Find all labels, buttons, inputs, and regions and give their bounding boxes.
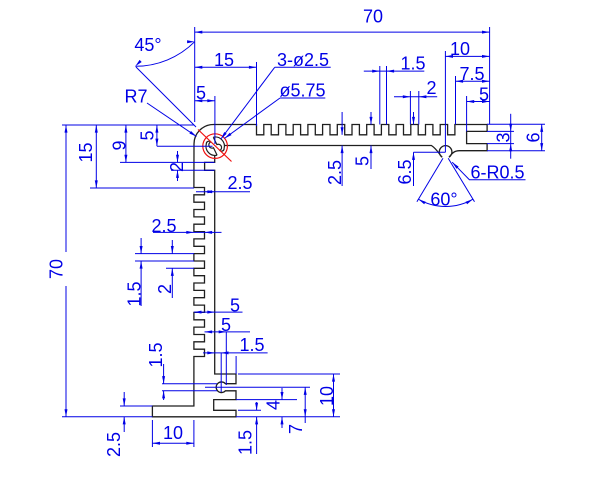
red ø5.75 circle marker (203, 134, 228, 159)
dimension 2.5 under arm (341, 112, 343, 135)
extension lines bottom right (236, 399, 297, 401)
svg-text:3: 3 (494, 132, 514, 142)
dimension 60 degrees (417, 158, 443, 202)
svg-text:15: 15 (214, 50, 234, 70)
svg-text:6.5: 6.5 (395, 159, 415, 184)
svg-text:10: 10 (450, 39, 470, 59)
dimension 2 left notch (177, 151, 179, 162)
dimension 10 top-right (445, 55, 489, 57)
leader R7 (147, 103, 197, 137)
svg-text:60°: 60° (430, 190, 457, 210)
dimension 70 left (65, 125, 67, 252)
dimension 2 left teeth (171, 240, 173, 254)
dimension 10 foot (152, 442, 194, 444)
svg-text:1.5: 1.5 (239, 335, 264, 355)
svg-text:70: 70 (363, 7, 383, 27)
svg-text:2: 2 (167, 162, 187, 172)
leader 6-R0.5 (452, 162, 525, 180)
dimension 2.5 wall (196, 191, 250, 193)
dimension 2.5 foot (123, 392, 125, 406)
extension lines top (194, 27, 196, 122)
svg-text:1.5: 1.5 (125, 281, 145, 306)
dimension 2.5 tooth depth (153, 231, 222, 233)
svg-text:1.5: 1.5 (400, 54, 425, 74)
leader ø5.75 (280, 97, 325, 99)
svg-text:3-ø2.5: 3-ø2.5 (277, 50, 329, 70)
svg-text:10: 10 (163, 423, 183, 443)
dimension 5 wall span (194, 311, 243, 313)
corner screw port hole (3-ø2.5) (206, 137, 224, 155)
svg-text:1.5: 1.5 (146, 342, 166, 367)
dimension 1.5 mid (163, 364, 165, 384)
red 45-degree slot axis line (198, 130, 232, 162)
svg-text:10: 10 (317, 386, 337, 406)
dimension 9 left (125, 125, 127, 162)
dimension 7 (304, 387, 306, 417)
dimension 5 left (156, 125, 158, 146)
dimension 5 lower (205, 331, 251, 333)
svg-text:45°: 45° (134, 35, 161, 55)
dimension 15 left (95, 125, 97, 188)
dimension 15 top (195, 66, 257, 68)
dimension 45 degrees (136, 67, 196, 127)
svg-text:9: 9 (110, 140, 130, 150)
svg-text:2: 2 (426, 78, 436, 98)
profile outline: L-shaped finned heatsink section (152, 125, 487, 417)
dimension 1.5 to circle (203, 352, 268, 354)
extension lines right (487, 123, 545, 125)
svg-text:5: 5 (230, 296, 240, 316)
svg-text:15: 15 (76, 142, 96, 162)
dimension 4 (281, 388, 283, 400)
svg-text:6: 6 (524, 132, 544, 142)
dimension 5 under arm (370, 112, 372, 125)
svg-text:2.5: 2.5 (227, 173, 252, 193)
svg-text:2: 2 (155, 284, 175, 294)
svg-text:5: 5 (353, 156, 373, 166)
dimension 5 top-left (195, 100, 215, 102)
svg-text:70: 70 (47, 259, 67, 279)
dimension 70 top (195, 31, 490, 33)
svg-text:5: 5 (138, 130, 158, 140)
svg-text:ø5.75: ø5.75 (279, 81, 325, 101)
dimension 5 top-right (467, 101, 490, 103)
dimension 10 right (333, 374, 335, 417)
svg-text:7: 7 (286, 424, 306, 434)
svg-text:5: 5 (479, 85, 489, 105)
svg-text:1.5: 1.5 (236, 430, 256, 455)
extension lines left (62, 124, 194, 126)
leader 3-ø2.5 (275, 66, 331, 68)
dimension 2 teeth (394, 96, 437, 98)
dimension 1.5 left teeth (140, 238, 142, 254)
svg-text:5: 5 (221, 315, 231, 335)
svg-text:4: 4 (264, 400, 284, 410)
dimension 3 fork slot (510, 114, 512, 159)
svg-text:2.5: 2.5 (325, 160, 345, 185)
dimension 6 fork height (541, 124, 543, 150)
svg-text:7.5: 7.5 (459, 64, 484, 84)
svg-text:2.5: 2.5 (151, 216, 176, 236)
svg-text:6-R0.5: 6-R0.5 (470, 163, 524, 183)
svg-text:2.5: 2.5 (104, 432, 124, 457)
dimension 6.5 under arm (413, 112, 415, 125)
dimension 1.5 bottom prong (256, 402, 258, 410)
svg-text:R7: R7 (124, 87, 147, 107)
dimension 7.5 (456, 80, 490, 82)
dimension 1.5 teeth (364, 70, 425, 72)
svg-text:5: 5 (196, 83, 206, 103)
